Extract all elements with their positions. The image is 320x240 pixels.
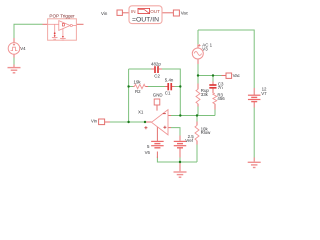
- svg-text:V7: V7: [261, 91, 267, 96]
- svg-text:482p: 482p: [151, 61, 161, 66]
- svg-text:POP Trigger: POP Trigger: [49, 14, 75, 19]
- svg-text:C2: C2: [154, 74, 160, 79]
- svg-text:33k: 33k: [201, 92, 209, 97]
- svg-text:V4: V4: [20, 46, 26, 51]
- svg-text:V3: V3: [202, 47, 208, 52]
- svg-text:C1: C1: [165, 90, 171, 95]
- svg-text:Vac: Vac: [233, 73, 241, 78]
- svg-text:R2: R2: [135, 89, 141, 94]
- svg-text:GND: GND: [153, 93, 163, 98]
- svg-text:456: 456: [217, 96, 225, 101]
- svg-text:IN: IN: [131, 9, 136, 14]
- svg-text:=OUT/IN: =OUT/IN: [132, 17, 159, 24]
- svg-text:5.4n: 5.4n: [165, 77, 174, 82]
- svg-text:X1: X1: [138, 110, 144, 115]
- svg-text:Vac: Vac: [181, 11, 189, 16]
- svg-text:Vin: Vin: [91, 119, 98, 124]
- svg-text:Vin: Vin: [101, 11, 108, 16]
- svg-text:Rlow: Rlow: [201, 130, 212, 135]
- svg-text:OUT: OUT: [150, 9, 160, 14]
- svg-text:Vref: Vref: [185, 138, 194, 143]
- svg-text:V6: V6: [145, 150, 151, 155]
- svg-text:7n: 7n: [218, 85, 223, 90]
- svg-text:19k: 19k: [134, 79, 142, 84]
